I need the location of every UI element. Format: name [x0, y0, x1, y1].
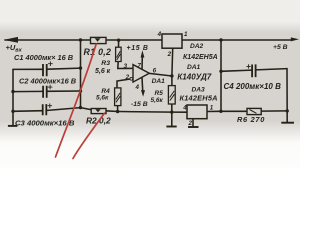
svg-text:-15 В: -15 В	[131, 101, 148, 108]
junction dot top rail x221	[219, 38, 222, 41]
junction dot R4 bottom	[116, 110, 119, 113]
red annotation line 1	[56, 44, 97, 157]
output arrow +5V	[291, 37, 299, 41]
wire: right rail down to ground	[286, 69, 288, 123]
ground bar mid (R5)	[166, 126, 176, 128]
wire: bottom rail R5 node to DA3 pin4	[172, 111, 187, 113]
svg-text:К140УД7: К140УД7	[177, 73, 211, 82]
wire: C2 branch	[13, 90, 81, 93]
wire: DA1 pin4 supply lead	[141, 77, 144, 90]
svg-text:C1 4000мк× 16 В: C1 4000мк× 16 В	[14, 53, 74, 62]
ground bar right	[281, 122, 294, 124]
svg-text:DA1: DA1	[187, 64, 201, 71]
svg-text:2: 2	[167, 51, 172, 58]
wire: R5 top lead	[171, 76, 173, 86]
svg-text:4: 4	[157, 31, 162, 38]
wire: top +Uвх rail	[5, 39, 291, 41]
wire: +5V vertical rail x221	[220, 40, 222, 111]
junction dot C3 left	[11, 110, 14, 113]
junction dot R5 rail	[170, 110, 173, 113]
svg-text:1: 1	[184, 31, 188, 38]
junction dot op-amp output	[170, 74, 173, 77]
C1 plus sign	[48, 61, 53, 66]
wire: R4 bottom lead	[117, 106, 119, 112]
svg-text:+15 В: +15 В	[127, 45, 149, 52]
wire: DA2 pin2 lead down	[171, 48, 174, 76]
op-amp DA1 triangle	[133, 65, 149, 83]
svg-text:3: 3	[124, 63, 128, 70]
input arrow +Uвх	[4, 37, 19, 43]
svg-text:4: 4	[182, 104, 187, 111]
resistor R3 5,6k	[116, 47, 122, 61]
wire: C1 branch	[13, 68, 81, 69]
junction dot C2 right	[79, 89, 82, 92]
regulator DA2 box	[162, 34, 182, 48]
svg-text:5,6 к: 5,6 к	[95, 68, 111, 75]
wire: bottom rail through R2 to R4 node	[81, 108, 118, 112]
wire: R6 branch	[221, 110, 287, 112]
svg-text:C4 200мк×10 В: C4 200мк×10 В	[224, 82, 282, 91]
wire: C4 branch	[221, 69, 287, 72]
svg-text:7: 7	[137, 63, 141, 70]
svg-text:1: 1	[210, 104, 214, 111]
capacitor C1 plates	[43, 64, 47, 76]
svg-text:DA2: DA2	[190, 43, 204, 50]
junction dot top rail x80	[79, 38, 82, 41]
junction dot C4 left	[219, 70, 222, 73]
C2 plus sign	[48, 85, 53, 90]
resistor R2 0,2 (shunt)	[91, 109, 106, 114]
svg-text:5,6к: 5,6к	[151, 97, 164, 104]
svg-text:6: 6	[153, 67, 157, 74]
wire: DA3 pin2 ground lead	[192, 119, 194, 127]
junction dot DA3 output	[219, 110, 222, 113]
capacitor C3 plates	[43, 104, 47, 115]
junction dot bottom rail x80	[79, 106, 82, 109]
svg-text:R3: R3	[101, 60, 110, 67]
wire: left common rail	[12, 69, 14, 125]
red annotation line 2	[73, 113, 105, 158]
svg-text:DA1: DA1	[152, 78, 166, 85]
wire: R3 bottom lead to op-amp pin3	[118, 62, 133, 69]
svg-text:R5: R5	[155, 90, 164, 97]
svg-text:C2 4000мк×16 В: C2 4000мк×16 В	[19, 77, 77, 86]
svg-text:R6 270: R6 270	[237, 115, 265, 124]
+15V supply arrow	[141, 50, 145, 57]
svg-text:2: 2	[125, 74, 130, 81]
capacitor C4 plates	[252, 64, 256, 77]
wire: DA1 pin7 supply lead	[141, 57, 143, 69]
ground bar left	[8, 125, 17, 127]
-15V supply arrow	[141, 90, 145, 97]
resistor R4 5,6k	[115, 88, 121, 106]
svg-text:R1 0,2: R1 0,2	[84, 47, 112, 57]
junction dot top rail x118	[117, 39, 120, 42]
svg-text:К142ЕН5А: К142ЕН5А	[180, 93, 218, 102]
wire: DA3 pin1 output lead	[207, 110, 221, 112]
resistor R5 5,6k	[168, 86, 175, 104]
regulator DA3 box	[187, 105, 207, 119]
wire: C3 branch / bottom rail left	[13, 108, 81, 112]
svg-text:К142ЕН5А: К142ЕН5А	[183, 54, 218, 61]
ground bar DA3 pin2	[188, 126, 199, 128]
paper background	[0, 0, 300, 168]
wire: R5 bottom lead to common terminal	[171, 104, 173, 126]
svg-text:5,6к: 5,6к	[96, 94, 109, 101]
resistor R6 270	[247, 108, 261, 114]
svg-text:+5 В: +5 В	[273, 44, 288, 51]
wire: bottom rail R4 node to R5 node	[118, 111, 172, 114]
wire: +input vertical rail x80	[80, 40, 82, 108]
wire: DA1 output to node	[149, 73, 172, 76]
resistor R1 0,2 (shunt)	[91, 37, 107, 43]
svg-text:2: 2	[188, 120, 193, 127]
C3 plus sign	[48, 104, 53, 109]
junction dot C1 right	[79, 66, 82, 69]
svg-text:4: 4	[135, 84, 140, 91]
wire: R3 top lead	[118, 40, 120, 47]
junction dot C2 left	[11, 90, 14, 93]
op-amp inverting input circle	[130, 77, 133, 80]
C4 plus sign	[246, 64, 250, 68]
svg-text:C3 4000мк×16 В: C3 4000мк×16 В	[15, 119, 75, 128]
junction dot right rail R6	[286, 109, 289, 112]
wire: R4 top lead to op-amp pin2	[117, 79, 130, 88]
capacitor C2 plates	[43, 86, 47, 98]
